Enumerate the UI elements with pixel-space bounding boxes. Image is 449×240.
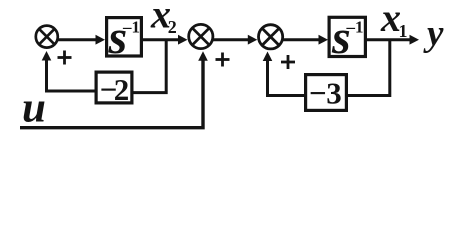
summer S2 [189,24,213,48]
svg-text:1: 1 [399,21,408,41]
plus sign S2 [216,53,230,67]
wire gain G3 to S3 [268,59,305,96]
svg-text:2: 2 [168,17,177,37]
arrowhead into S3 [248,35,257,45]
svg-text:–1: –1 [122,18,140,37]
svg-text:−: − [309,76,327,111]
svg-text:3: 3 [326,76,342,111]
arrowhead into S2 [178,35,188,45]
summer S1 [36,26,58,48]
wire S2 to summer S3 [212,38,249,41]
arrowhead into S2 bottom [198,51,208,61]
wire I2 to output y [366,38,411,41]
wire input u [20,59,203,128]
plus sign S3 [281,55,295,69]
wire gain G2 to S1 [47,59,96,92]
summer S3 [259,25,283,49]
svg-text:u: u [22,85,46,132]
wire I1 to summer S2 [142,38,179,41]
arrowhead into I1 [96,35,106,45]
node x1 branch [348,40,390,96]
svg-text:–1: –1 [346,18,364,37]
integrator I2 box [329,17,365,56]
wire S3 to integrator I2 [282,38,320,41]
svg-text:2: 2 [114,72,130,107]
node x2 branch [133,40,166,93]
arrowhead into S1 bottom [42,51,52,61]
gain G2 box [96,72,132,103]
arrowhead output y [410,35,420,45]
plus sign S1 [58,51,72,65]
svg-text:y: y [423,13,444,54]
integrator I1 box [107,18,142,56]
wire S1 to integrator I1 [57,38,97,41]
arrowhead into S3 bottom [263,52,273,62]
gain G3 box [306,75,347,111]
arrowhead into I2 [319,35,329,45]
